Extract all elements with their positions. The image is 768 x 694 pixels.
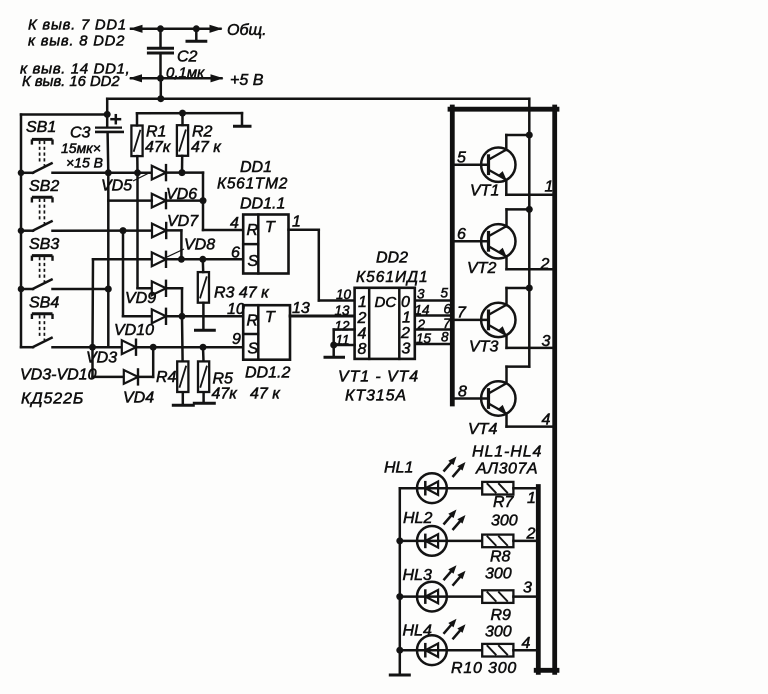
wire: VT2 collector (507, 209, 530, 226)
node: VD9/VD10/R4 junction (179, 313, 186, 320)
svg-text:1: 1 (527, 490, 536, 507)
node: pin11 junction (330, 342, 337, 349)
svg-text:13: 13 (335, 303, 351, 318)
wire: R4 leads and ground (173, 316, 193, 405)
node: junction above C3 (104, 111, 111, 118)
svg-text:R: R (247, 222, 259, 239)
diode VD4 (124, 368, 138, 385)
node: VT2 collector node (526, 206, 533, 213)
svg-text:8: 8 (458, 384, 467, 401)
wire: harness bundle right bar (552, 107, 557, 672)
svg-text:300: 300 (485, 624, 512, 641)
label: VD8 with callout (167, 237, 215, 258)
wire: R10 to harness (wire 4) (513, 649, 536, 652)
node: VD3/VD4 cathode junction (150, 344, 157, 351)
svg-text:C3: C3 (70, 125, 91, 142)
svg-text:VD7: VD7 (167, 213, 199, 230)
resistor R7 (482, 482, 513, 495)
label: HL3 light arrows (444, 565, 466, 586)
wire: harness bundle left bar (450, 107, 455, 404)
svg-text:2: 2 (400, 325, 410, 342)
svg-text:47к: 47к (212, 386, 239, 403)
wire: R5 leads and ground (194, 347, 214, 403)
wire: VD3/VD4 cathode line to DD1.2 pin9 (137, 346, 244, 349)
svg-text:47 к: 47 к (250, 386, 281, 403)
wire: R8 to harness (wire 2) (513, 540, 536, 543)
svg-text:300: 300 (491, 513, 518, 530)
ground: common symbol stub at top (187, 29, 206, 41)
label: HL4 light arrows (444, 619, 466, 640)
wire: SB4 output line to VD3 (21, 346, 122, 349)
resistor R5 (198, 361, 209, 392)
diode VD7 (152, 222, 166, 239)
wire: DD1.1 output pin1 to DD2 input 1 (289, 230, 355, 301)
svg-text:R10 300: R10 300 (451, 660, 517, 677)
wire: +5V bus VT2->VT3 (528, 209, 531, 288)
svg-text:SB4: SB4 (29, 295, 59, 312)
svg-text:VD8: VD8 (184, 237, 215, 254)
transistor VT1 (481, 148, 515, 182)
pushbutton SB1 (32, 139, 53, 173)
svg-text:К561ИД1: К561ИД1 (356, 269, 429, 286)
svg-text:R9: R9 (491, 607, 512, 624)
svg-text:R2: R2 (192, 124, 213, 141)
svg-text:HL1-HL4: HL1-HL4 (472, 444, 542, 461)
pushbutton SB4 (32, 314, 53, 348)
svg-text:HL1: HL1 (384, 460, 413, 477)
resistor R10 (482, 644, 513, 657)
svg-text:7: 7 (457, 305, 467, 322)
wire: VT3 emitter to output 3 (507, 335, 553, 348)
svg-text:HL3: HL3 (403, 567, 432, 584)
svg-text:SB2: SB2 (29, 178, 59, 195)
wire: vertical A (VD8 anode line down to SB4) (93, 259, 152, 347)
wire: vertical joining VD5/VD6 cathodes to DD1.1 R input (202, 173, 205, 230)
svg-text:Общ.: Общ. (227, 22, 267, 39)
capacitor C3 (electrolytic) (95, 115, 124, 173)
wire: R7 to harness (wire 1) (513, 487, 536, 490)
svg-text:9: 9 (232, 331, 241, 348)
wire: DD1.2 pin10 input line (167, 315, 244, 318)
svg-text:1: 1 (545, 179, 554, 196)
svg-text:13: 13 (292, 300, 310, 317)
svg-text:КД522Б: КД522Б (21, 391, 84, 408)
svg-text:2: 2 (540, 256, 550, 273)
resistor R4 (177, 361, 188, 392)
wire: DD1.1 pin4 input line (203, 229, 243, 232)
svg-text:1: 1 (292, 214, 301, 231)
label: DD2 outputs 0 1 2 3 (400, 294, 411, 358)
node: SB4/VD4-branch junction (89, 344, 96, 351)
wire: VT3 base line (wire 7) (455, 319, 489, 322)
svg-text:VD3: VD3 (86, 350, 117, 367)
wire: VD6 anode line (108, 199, 152, 202)
svg-text:C2: C2 (177, 49, 198, 66)
wire: VT1 base line (wire 5) (455, 163, 489, 166)
wire: VD4 anode branch (93, 347, 124, 377)
wire: DD2 output 1 to harness (wire 6) (415, 314, 450, 317)
svg-text:8: 8 (441, 330, 449, 345)
wire: VT3 collector (507, 288, 530, 305)
wire: harness bundle top bar (450, 107, 557, 112)
label: DD2 input weights 1 2 4 8 (357, 294, 367, 358)
svg-text:4: 4 (522, 635, 531, 652)
wire: VD9 cathode down to pin10 line (167, 288, 183, 316)
node: C3/SB1 junction (105, 169, 112, 176)
svg-text:6: 6 (457, 226, 466, 243)
svg-text:+5 В: +5 В (230, 72, 264, 89)
wire: R9 to harness (wire 3) (513, 595, 536, 598)
wire: SB1 output line (21, 172, 152, 175)
node: rail/SB2 junction (18, 227, 25, 234)
svg-text:4: 4 (230, 215, 239, 232)
svg-text:к выв. 8 DD2: к выв. 8 DD2 (28, 34, 125, 50)
wire: VT4 emitter to output 4 (507, 414, 555, 427)
wire: +5V bus VT1->VT2 (528, 135, 531, 209)
LED HL4 (417, 635, 447, 665)
node: junction of +5V vertical and horizontal (157, 95, 164, 102)
node: VD6/vertical junction (200, 197, 207, 204)
diode VD3 (122, 339, 136, 356)
node: rail/SB3 junction (18, 286, 25, 293)
wire: VD4 cathode up to junction (139, 347, 154, 377)
diode VD10 (152, 308, 166, 325)
op-amp/flip-flop DD1.1 box (243, 215, 288, 274)
svg-text:R8: R8 (490, 549, 511, 566)
wire: vertical from SB2 down to VD10 (123, 231, 152, 317)
wire: VT2 base line (wire 6) (455, 240, 489, 243)
node: HL3 rail junction (396, 593, 403, 600)
resistor R9 (482, 590, 513, 603)
svg-text:300: 300 (485, 566, 512, 583)
op-amp/flip-flop DD1.2 box (243, 305, 290, 360)
svg-text:T: T (265, 309, 276, 326)
label: VD5 with callout (101, 172, 152, 195)
svg-text:DC: DC (375, 294, 397, 311)
wire: HL2 anode/cathode wires (400, 540, 482, 543)
svg-text:×15 В: ×15 В (66, 155, 103, 171)
wire: DD2 output 3 to harness (wire 8) (415, 343, 450, 346)
svg-text:47 к: 47 к (191, 139, 222, 156)
svg-text:VD9: VD9 (125, 290, 156, 307)
svg-text:8: 8 (358, 341, 367, 358)
svg-text:2: 2 (526, 526, 536, 543)
wire: left switch rail vertical (20, 115, 23, 348)
capacitor C2 (148, 29, 172, 79)
svg-text:S: S (248, 253, 259, 270)
svg-text:10: 10 (227, 301, 245, 318)
node: junction common-symbol on Общ rail (193, 25, 200, 32)
svg-text:12: 12 (335, 319, 351, 334)
svg-text:VT2: VT2 (467, 260, 496, 277)
wire: VD6 cathode line (167, 199, 204, 202)
svg-text:DD2: DD2 (376, 250, 408, 267)
label: HL1 light arrows (444, 457, 466, 478)
svg-text:АЛ307А: АЛ307А (475, 461, 538, 478)
svg-text:DD1.2: DD1.2 (245, 365, 290, 382)
node: junction C2 top on Общ rail (157, 25, 164, 32)
svg-text:3: 3 (523, 580, 532, 597)
wire: +5V rail with arrows (129, 74, 224, 82)
svg-text:VD10: VD10 (114, 322, 154, 339)
node: HL2 rail junction (396, 537, 403, 544)
LED HL3 (417, 582, 447, 612)
pushbutton SB3 (32, 256, 53, 290)
node: SB3/vertical-B junction (105, 286, 112, 293)
wire: DD1.1 pin6 input line (167, 258, 244, 261)
diode VD6 (152, 192, 166, 209)
svg-text:DD1: DD1 (240, 159, 272, 176)
label: + of C3 (112, 115, 121, 123)
wire: left supply line to switch rail (21, 113, 107, 116)
wire: R1/R2 top rail with common tick (137, 113, 250, 126)
svg-text:2: 2 (357, 310, 367, 327)
svg-text:3: 3 (542, 333, 551, 350)
svg-text:3: 3 (417, 287, 425, 302)
decoder DD2 box (355, 288, 415, 359)
LED HL1 (417, 473, 447, 503)
wire: Обш./ground top rail (130, 25, 223, 33)
wire: vertical from R1/SB1 down to VD9 (138, 173, 152, 288)
wire: HL3 anode/cathode wires (400, 595, 482, 598)
wire: VT1 emitter to output 1 (506, 180, 552, 195)
wire: HL1 anode/cathode wires (400, 487, 482, 490)
svg-text:47к: 47к (145, 139, 172, 156)
wire: VT4 base line (wire 8) (452, 397, 488, 400)
svg-text:T: T (265, 219, 276, 236)
svg-text:КТ315А: КТ315А (345, 388, 407, 405)
wire: SB2 output line to VD7 (21, 229, 152, 232)
wire: R1 leads (136, 113, 139, 173)
diode VD9 (152, 280, 166, 297)
svg-text:5: 5 (441, 286, 449, 301)
LED HL2 (417, 526, 447, 556)
svg-text:14: 14 (415, 303, 430, 318)
resistor R3 (198, 272, 209, 303)
node: VD7/VD8 junction (178, 256, 185, 263)
svg-text:VT1 - VT4: VT1 - VT4 (338, 369, 419, 386)
svg-text:6: 6 (231, 245, 240, 262)
svg-text:2: 2 (417, 317, 426, 332)
wire: VD7 cathode down to pin6 line (167, 230, 182, 259)
resistor R1 (131, 126, 142, 157)
wire: VT2 emitter to output 2 (507, 256, 553, 269)
transistor VT2 (481, 224, 515, 258)
svg-text:VT1: VT1 (470, 183, 499, 200)
svg-text:1: 1 (358, 294, 367, 311)
diode VD5 (152, 164, 166, 181)
svg-text:3: 3 (402, 341, 411, 358)
resistor R8 (482, 535, 513, 548)
node: rail/SB1 junction (18, 170, 25, 177)
svg-text:R4: R4 (156, 369, 177, 386)
node: HL4 rail junction (396, 647, 403, 654)
svg-text:SB1: SB1 (26, 119, 56, 136)
svg-text:15: 15 (416, 331, 432, 346)
wire: harness bundle bottom bar (536, 668, 557, 673)
svg-text:R3 47 к: R3 47 к (214, 285, 270, 302)
svg-text:HL2: HL2 (403, 510, 432, 527)
svg-text:1: 1 (402, 310, 411, 327)
resistor R2 (177, 125, 188, 156)
node: SB2/VD10-branch junction (120, 227, 127, 234)
node: R5 top junction (200, 344, 207, 351)
wire: LED cathode rail with ground (390, 488, 409, 675)
wire: DD2 output 0 to harness (wire 5) (415, 299, 450, 302)
node: R2/VD5 junction (179, 169, 186, 176)
svg-text:VD3-VD10: VD3-VD10 (20, 367, 97, 384)
node: R1/SB1 junction (134, 169, 141, 176)
svg-text:R1: R1 (146, 124, 166, 141)
wire: vertical B (C3- / SB1 / SB3 / VD3) (107, 173, 110, 347)
svg-text:DD1.1: DD1.1 (240, 196, 285, 213)
svg-text:10: 10 (336, 287, 352, 302)
node: VT1 collector node (526, 132, 533, 139)
node: R3 top junction (199, 256, 206, 263)
wire: collector feed VT3->VT4 (507, 288, 530, 384)
wire: SB3 output line (21, 288, 108, 291)
wire: DD1.2 output pin13 to DD2 input 2 (290, 315, 355, 318)
node: R2 junction on top rail (179, 110, 186, 117)
svg-text:0: 0 (401, 294, 410, 311)
svg-text:R: R (247, 313, 259, 330)
svg-text:S: S (248, 341, 259, 358)
wire: harness bundle lower-left bar (536, 487, 541, 673)
svg-text:4: 4 (358, 326, 367, 343)
svg-text:VD5: VD5 (101, 178, 132, 195)
wire: R3 leads and ground (196, 259, 215, 330)
transistor VT3 (481, 303, 515, 337)
svg-text:К выв. 16 DD2: К выв. 16 DD2 (22, 74, 120, 90)
wire: VT1 collector to +5V node (506, 135, 529, 150)
wire: VD5 cathode to corner (167, 171, 204, 174)
svg-text:5: 5 (457, 150, 466, 167)
wire: VD3 anode line from vertical B corner (93, 346, 122, 349)
svg-text:R7: R7 (493, 494, 515, 511)
svg-text:HL4: HL4 (403, 623, 432, 640)
wire: +5V feed down and main horizontal distribution (107, 78, 529, 135)
wire: HL4 anode/cathode wires (400, 649, 482, 652)
transistor VT4 (481, 381, 515, 415)
svg-text:VT3: VT3 (469, 339, 498, 356)
wire: DD2 pins 12/11 tie to ground (325, 330, 355, 358)
svg-text:К выв. 7 DD1: К выв. 7 DD1 (28, 18, 127, 34)
label: HL2 light arrows (444, 510, 466, 531)
svg-text:К561ТМ2: К561ТМ2 (217, 176, 288, 193)
node: VT3 collector node (526, 285, 533, 292)
diode VD8 (152, 251, 166, 268)
wire: R2 leads (181, 113, 184, 173)
svg-text:VD4: VD4 (123, 390, 154, 407)
svg-text:VT4: VT4 (468, 421, 497, 438)
node: +5V junction (157, 75, 164, 82)
svg-text:SB3: SB3 (29, 236, 59, 253)
svg-text:4: 4 (542, 412, 551, 429)
wire: DD2 output 2 to harness (wire 7) (415, 328, 450, 331)
pushbutton SB2 (32, 197, 53, 231)
